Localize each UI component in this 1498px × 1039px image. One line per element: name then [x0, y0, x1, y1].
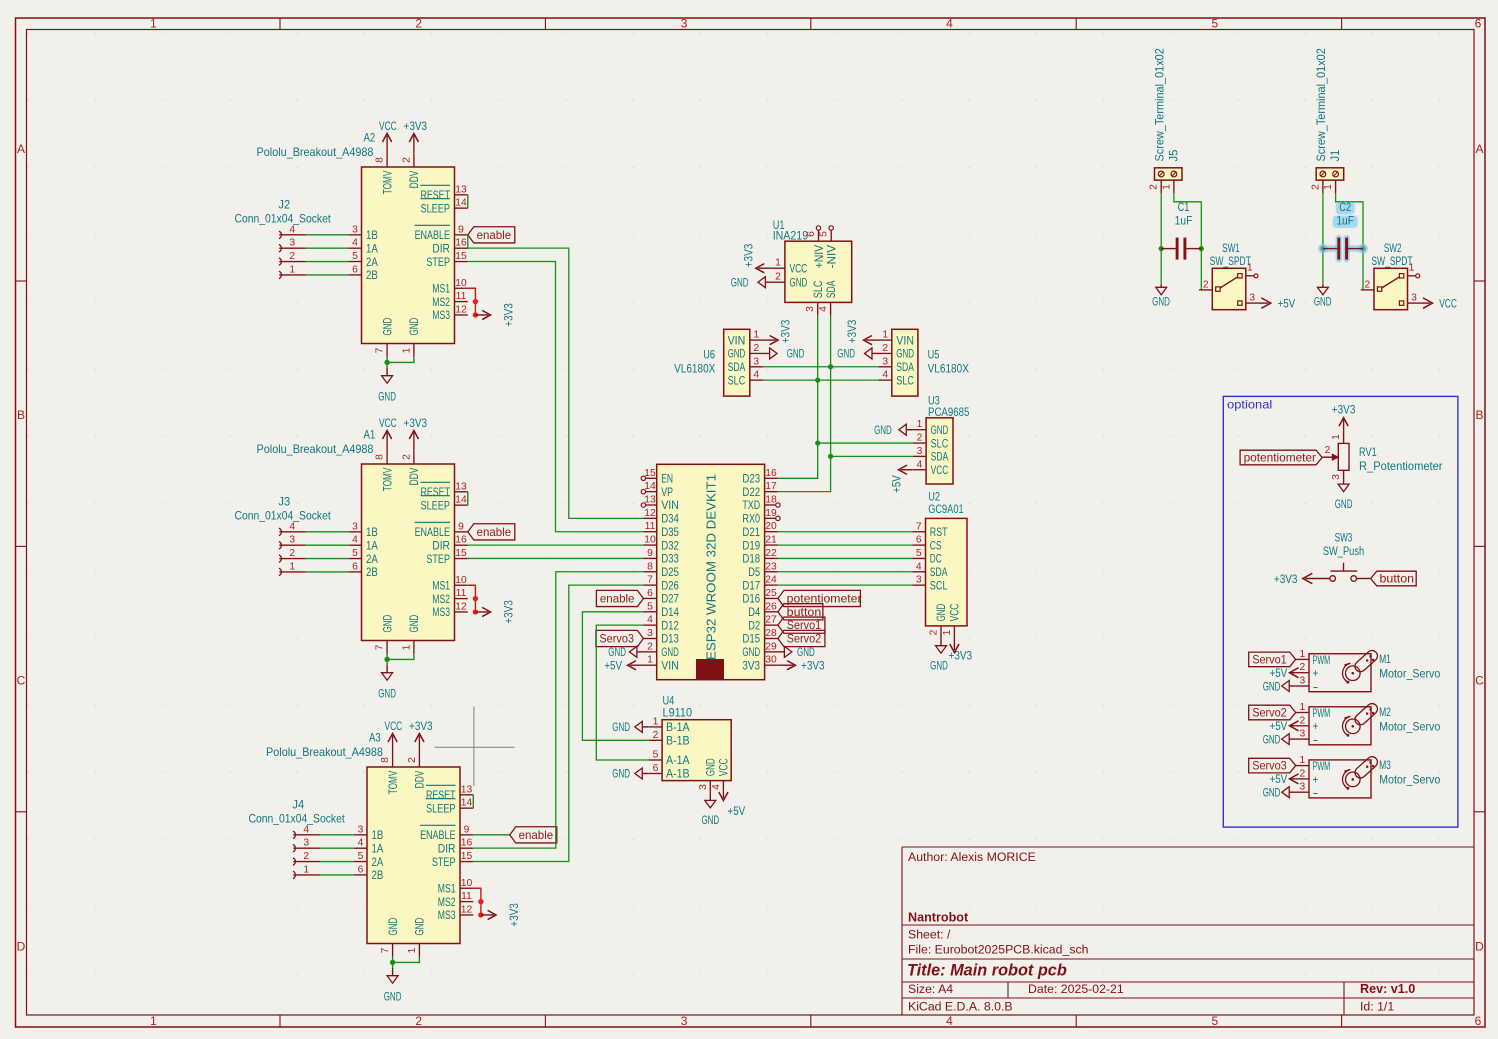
pin 15 EN [646, 477, 657, 479]
svg-text:10: 10 [455, 278, 467, 289]
power +5V [1290, 778, 1296, 780]
svg-text:27: 27 [765, 615, 777, 626]
display driver U2 GC9A01 [912, 490, 972, 673]
pin 8 D25 [643, 571, 656, 573]
svg-text:SDA: SDA [728, 360, 746, 374]
svg-text:DIR: DIR [432, 538, 450, 552]
pin 9 ENABLE [455, 531, 468, 533]
svg-text:-: - [1313, 786, 1319, 800]
junction cap left [1159, 246, 1164, 251]
power +5V at pin 1 [630, 664, 643, 666]
svg-text:GND: GND [931, 423, 949, 437]
cursor crosshair [435, 707, 515, 787]
svg-text:D33: D33 [661, 552, 679, 566]
svg-text:4: 4 [358, 838, 364, 849]
net label Servo1 (D2) [778, 617, 825, 633]
ground symbol [1343, 481, 1345, 484]
svg-text:Pololu_Breakout_A4988: Pololu_Breakout_A4988 [266, 746, 383, 759]
IC U3 PCA9685 [874, 394, 969, 493]
svg-text:6: 6 [358, 864, 364, 875]
connector J2 Conn_01x04_Socket [234, 198, 348, 279]
svg-text:A1: A1 [364, 428, 376, 442]
ground symbol at U1 [765, 281, 771, 283]
pin 14 SLEEP [460, 807, 473, 809]
screw 2 [1171, 171, 1177, 177]
svg-text:3: 3 [681, 1014, 688, 1028]
svg-text:SDA: SDA [931, 450, 949, 464]
svg-text:6: 6 [647, 588, 653, 599]
svg-text:+3V3: +3V3 [1274, 572, 1298, 586]
net label Servo1 [1249, 652, 1296, 667]
pin 4 of J2 [279, 231, 281, 238]
svg-text:6: 6 [653, 763, 659, 774]
pin 4 1A [348, 247, 361, 249]
net label button (D4) [778, 604, 823, 620]
wire J2 pin 1 to A2 [306, 274, 349, 276]
svg-text:enable: enable [600, 591, 635, 605]
svg-text:12: 12 [644, 508, 656, 519]
svg-text:GND: GND [1263, 679, 1281, 693]
junction MS3 [473, 609, 478, 614]
pin 10 MS1 [455, 287, 468, 289]
power +5V below U4 [722, 794, 724, 798]
pin 3 1B [354, 834, 367, 836]
svg-text:3: 3 [1300, 729, 1306, 740]
pin 6 VIN+ [818, 230, 820, 241]
pin 3 SDA [750, 366, 763, 368]
svg-text:VCC: VCC [931, 463, 949, 477]
wire J4 pin 2 to A3 [320, 861, 354, 863]
IC U6 VL6180X [674, 320, 804, 397]
svg-text:13: 13 [455, 184, 467, 195]
wire SLC bus (U1 pin3 to D23) [778, 316, 818, 479]
svg-text:22: 22 [765, 548, 777, 559]
svg-text:D14: D14 [661, 605, 679, 619]
svg-text:1: 1 [882, 330, 888, 341]
ground symbol [872, 352, 879, 354]
pin 11 MS2 [455, 301, 468, 303]
pin 3 of J3 [279, 542, 281, 549]
svg-text:2: 2 [303, 851, 309, 862]
svg-text:SDA: SDA [824, 280, 838, 298]
wire D14 to U4 B-1B [582, 612, 648, 741]
svg-text:MS3: MS3 [432, 605, 450, 619]
power +3V3 at pin 30 [778, 664, 793, 666]
svg-text:1: 1 [1247, 263, 1253, 274]
svg-text:1: 1 [775, 258, 781, 269]
svg-text:GND: GND [704, 758, 718, 776]
svg-text:7: 7 [375, 644, 386, 650]
pin 16 DIR [455, 247, 468, 249]
svg-text:potentiometer: potentiometer [1244, 452, 1317, 465]
svg-text:10: 10 [644, 535, 656, 546]
pin 7 GND [386, 641, 388, 654]
wire GND tie [387, 357, 414, 363]
svg-text:D26: D26 [661, 578, 679, 592]
pin 19 RX0 [765, 517, 776, 519]
svg-text:1: 1 [289, 561, 295, 572]
pin 1 of J4 [293, 871, 295, 878]
junction cap right [1199, 246, 1204, 251]
pin 4 1A [354, 847, 367, 849]
svg-text:3: 3 [1300, 676, 1306, 687]
svg-text:2: 2 [653, 730, 659, 741]
svg-text:17: 17 [765, 481, 777, 492]
svg-text:GND: GND [797, 645, 815, 659]
svg-text:1: 1 [303, 864, 309, 875]
pin 2 GND [643, 651, 656, 653]
svg-text:GND: GND [742, 645, 760, 659]
svg-text:4: 4 [946, 17, 953, 31]
ground symbol below J1 [1314, 284, 1332, 308]
net label Servo2 (D15) [778, 630, 825, 646]
svg-text:1: 1 [753, 330, 759, 341]
svg-text:Author: Alexis MORICE: Author: Alexis MORICE [908, 850, 1036, 864]
svg-text:TOMV: TOMV [380, 170, 394, 194]
svg-text:4: 4 [289, 224, 295, 235]
pin 4 D12 [643, 624, 656, 626]
svg-text:7: 7 [647, 575, 653, 586]
junction SDA row [828, 364, 833, 369]
pin 22 D18 [765, 557, 778, 559]
svg-text:2: 2 [1310, 184, 1321, 190]
svg-text:3: 3 [1331, 474, 1342, 480]
wire J2 pin 3 to A2 [306, 247, 349, 249]
wire RESET-SLEEP tie [467, 492, 469, 505]
svg-text:4: 4 [352, 535, 358, 546]
pin 2 [1199, 289, 1212, 291]
cap leads [1323, 248, 1338, 250]
svg-text:-: - [1313, 733, 1319, 747]
ground symbol [1289, 791, 1296, 793]
wire J1 pin2 down [1322, 193, 1324, 284]
pin 1 of J3 [279, 568, 281, 575]
pin 1 [1246, 275, 1254, 277]
net label Servo3 (D13) [596, 630, 644, 646]
pin 3 D13 [643, 638, 656, 640]
svg-text:+5V: +5V [728, 804, 746, 818]
svg-text:Sheet: /: Sheet: / [908, 928, 951, 942]
svg-text:4: 4 [711, 784, 722, 790]
pin 12 MS3 [460, 914, 473, 916]
svg-text:M2: M2 [1379, 705, 1391, 719]
svg-text:J3: J3 [278, 495, 290, 509]
svg-text:DIR: DIR [438, 841, 456, 855]
svg-text:1uF: 1uF [1336, 214, 1354, 228]
ground symbol [392, 968, 394, 976]
wire A2 STEP to D35 [468, 262, 644, 532]
svg-text:A3: A3 [369, 731, 381, 745]
net label Servo3 [1249, 758, 1296, 773]
junction SLC-U3 [815, 440, 820, 445]
pin 6 CS [912, 544, 925, 546]
svg-text:24: 24 [765, 575, 777, 586]
pin 4 SDA [912, 571, 925, 573]
svg-text:Screw_Terminal_01x02: Screw_Terminal_01x02 [1153, 48, 1167, 161]
svg-text:D: D [17, 939, 26, 953]
svg-text:RX0: RX0 [742, 512, 760, 526]
graphic box optional [1223, 396, 1458, 827]
wire SDA to U3 [831, 455, 913, 457]
pin 1 PWM [1296, 712, 1309, 714]
pin 1 VIN [750, 339, 763, 341]
svg-text:2A: 2A [372, 855, 384, 869]
svg-text:PWM: PWM [1313, 706, 1331, 720]
pin 2 + [1296, 725, 1309, 727]
svg-text:8: 8 [375, 454, 386, 460]
pin 7 GND [392, 944, 394, 957]
svg-text:SW2: SW2 [1384, 241, 1402, 255]
net label button [1371, 571, 1417, 586]
wire J3 pin 3 to A1 [306, 544, 349, 546]
svg-text:C: C [1475, 674, 1484, 688]
svg-text:STEP: STEP [432, 855, 456, 869]
pin 12 MS3 [455, 314, 468, 316]
pin 13 RESET [455, 194, 468, 196]
wire MS1-MS2-MS3 tie [468, 585, 476, 612]
svg-text:1: 1 [1300, 649, 1306, 660]
wire A3 DIR to D25 [473, 572, 643, 848]
svg-text:20: 20 [765, 521, 777, 532]
pin 6 D27 [643, 597, 656, 599]
junction GND [390, 960, 395, 965]
pin 6 2B [354, 874, 367, 876]
svg-text:1A: 1A [366, 538, 378, 552]
svg-text:GND: GND [1263, 732, 1281, 746]
svg-text:EN: EN [661, 472, 673, 486]
svg-text:VCC: VCC [790, 261, 808, 275]
svg-text:Servo3: Servo3 [1252, 759, 1287, 773]
body [1338, 443, 1349, 470]
svg-text:3: 3 [917, 446, 923, 457]
contact circles [1330, 576, 1336, 582]
pin 4 of J3 [279, 528, 281, 535]
connector J3 Conn_01x04_Socket [234, 495, 348, 576]
pin 14 VP [646, 491, 657, 493]
svg-text:3: 3 [882, 356, 888, 367]
svg-text:9: 9 [647, 548, 653, 559]
pin 7 RST [912, 531, 925, 533]
wire D18 to U2 DC [778, 557, 912, 559]
svg-text:SLC: SLC [896, 373, 914, 387]
pin 26 D4 [765, 611, 778, 613]
svg-text:Servo2: Servo2 [787, 632, 822, 646]
svg-text:KiCad E.D.A. 8.0.B: KiCad E.D.A. 8.0.B [908, 1000, 1013, 1014]
pin 2 GND [940, 626, 942, 639]
svg-text:4: 4 [753, 370, 759, 381]
pin 11 MS2 [455, 598, 468, 600]
svg-text:D13: D13 [661, 632, 679, 646]
svg-text:-NIV: -NIV [825, 244, 839, 268]
svg-text:13: 13 [461, 784, 473, 795]
svg-text:A-1B: A-1B [666, 767, 690, 781]
svg-text:SLEEP: SLEEP [426, 801, 456, 815]
ground symbol [1289, 738, 1296, 740]
wire A2 DIR to D34 [468, 235, 644, 519]
pin 3 SDA [913, 455, 926, 457]
svg-text:INA219: INA219 [773, 229, 809, 243]
svg-text:3: 3 [753, 356, 759, 367]
power VCC [392, 736, 394, 754]
pin 30 3V3 [765, 664, 778, 666]
svg-text:2: 2 [775, 272, 781, 283]
svg-text:4: 4 [917, 459, 923, 470]
svg-text:Date: 2025-02-21: Date: 2025-02-21 [1028, 982, 1124, 996]
svg-text:Pololu_Breakout_A4988: Pololu_Breakout_A4988 [257, 146, 374, 159]
pin 7 GND [386, 344, 388, 357]
svg-text:Nantrobot: Nantrobot [908, 911, 969, 925]
svg-text:25: 25 [765, 588, 777, 599]
pin 9 ENABLE [455, 234, 468, 236]
svg-text:Screw_Terminal_01x02: Screw_Terminal_01x02 [1314, 48, 1328, 161]
svg-text:A: A [17, 142, 25, 156]
svg-text:D27: D27 [661, 592, 679, 606]
svg-text:DC: DC [930, 552, 942, 566]
wire J2 pin 4 to A2 [306, 234, 349, 236]
svg-text:+3V3: +3V3 [403, 119, 427, 133]
pin 1 VIN [643, 664, 656, 666]
svg-text:2: 2 [1300, 715, 1306, 726]
pin 12 MS3 [455, 611, 468, 613]
power +3V3 at VIN [866, 339, 879, 341]
pin 3 SCL [912, 584, 925, 586]
power +3V3 at MS pins [475, 611, 488, 613]
connector J4 Conn_01x04_Socket [248, 798, 353, 879]
svg-text:3: 3 [805, 306, 816, 312]
svg-text:+5V: +5V [604, 658, 622, 672]
svg-text:C2: C2 [1339, 200, 1351, 214]
svg-text:5: 5 [1212, 1014, 1219, 1028]
power +3V3 at MS pins [475, 314, 488, 316]
pin 15 STEP [455, 261, 468, 263]
stepper driver A2 Pololu_Breakout_A4988 [257, 119, 516, 404]
svg-text:3: 3 [303, 838, 309, 849]
pin 8 VMOT [386, 451, 388, 464]
svg-text:2: 2 [1203, 279, 1209, 290]
wire MS1-MS2-MS3 tie [468, 288, 476, 315]
pin 21 D19 [765, 544, 778, 546]
svg-text:11: 11 [461, 891, 472, 902]
svg-text:GND: GND [384, 990, 402, 1004]
svg-text:VCC: VCC [948, 604, 962, 622]
svg-text:16: 16 [455, 238, 467, 249]
svg-text:2: 2 [289, 548, 295, 559]
svg-text:GND: GND [1314, 295, 1332, 309]
power +5V at pin 3 [1259, 302, 1269, 304]
svg-text:RESET: RESET [420, 188, 450, 202]
svg-text:D22: D22 [742, 485, 760, 499]
svg-text:GND: GND [378, 390, 396, 404]
svg-text:SW_SPDT: SW_SPDT [1371, 254, 1413, 268]
svg-text:SW3: SW3 [1335, 531, 1353, 545]
svg-text:D4: D4 [748, 605, 760, 619]
pin 4 VCC [913, 469, 926, 471]
svg-text:GND: GND [701, 813, 719, 827]
svg-text:MS2: MS2 [432, 295, 450, 309]
svg-text:PCA9685: PCA9685 [928, 405, 969, 419]
pin 14 SLEEP [455, 207, 468, 209]
svg-text:D: D [1475, 939, 1484, 953]
wire A1 STEP to D33 [468, 557, 644, 559]
svg-text:15: 15 [461, 851, 473, 862]
svg-text:1: 1 [150, 17, 157, 31]
svg-text:TOMV: TOMV [386, 770, 400, 794]
svg-text:STEP: STEP [426, 552, 450, 566]
motor driver U4 L9110 [612, 694, 746, 828]
pin 2 VDD [418, 754, 420, 767]
svg-text:SLC: SLC [728, 373, 746, 387]
pin 2 of J2 [279, 258, 281, 265]
pin 9 D33 [643, 557, 656, 559]
svg-text:6: 6 [352, 561, 358, 572]
pin 2 [1357, 578, 1371, 580]
pin 4 of J4 [293, 831, 295, 838]
svg-text:+5V: +5V [1269, 772, 1287, 786]
pin 20 D21 [765, 531, 778, 533]
svg-text:11: 11 [645, 521, 656, 532]
screw 1 [1158, 171, 1164, 177]
svg-text:2: 2 [882, 343, 888, 354]
pin 8 VMOT [386, 154, 388, 167]
svg-text:Title: Main robot pcb: Title: Main robot pcb [907, 962, 1067, 980]
svg-text:14: 14 [455, 495, 467, 506]
net label enable (D27) [596, 590, 643, 606]
button bar [1330, 570, 1357, 572]
svg-text:2: 2 [1149, 184, 1160, 190]
pin 16 DIR [455, 544, 468, 546]
pin 3 - [1296, 791, 1309, 793]
usb connector mark [696, 659, 724, 680]
net label enable [468, 227, 515, 243]
pin 8 VMOT [392, 754, 394, 767]
svg-text:2: 2 [929, 629, 940, 635]
junction MS2 [478, 899, 483, 904]
svg-text:Rev: v1.0: Rev: v1.0 [1360, 982, 1415, 996]
cap plates [1337, 238, 1340, 260]
cap plates [1176, 238, 1179, 260]
svg-text:4: 4 [352, 238, 358, 249]
svg-text:VCC: VCC [717, 758, 731, 776]
net label enable [468, 524, 515, 540]
svg-text:J1: J1 [1328, 150, 1342, 162]
svg-text:-: - [1313, 679, 1319, 693]
pin 25 D16 [765, 597, 778, 599]
net label potentiometer [1240, 450, 1322, 465]
junction GND [384, 360, 389, 365]
svg-text:3: 3 [916, 575, 922, 586]
pin 16 D23 [765, 477, 778, 479]
svg-text:1uF: 1uF [1175, 214, 1193, 228]
pin 2 GND [750, 352, 763, 354]
pin 5 A-1A [649, 759, 662, 761]
ground symbol at U3 [906, 429, 913, 431]
svg-text:GND: GND [874, 423, 892, 437]
svg-text:Motor_Servo: Motor_Servo [1379, 721, 1440, 734]
svg-text:TOMV: TOMV [380, 467, 394, 491]
svg-text:TXD: TXD [742, 498, 760, 512]
svg-text:12: 12 [455, 601, 467, 612]
svg-text:M3: M3 [1379, 758, 1391, 772]
junction SDA-U3 [828, 454, 833, 459]
power VCC at pin 3 [1421, 302, 1431, 304]
svg-text:7: 7 [375, 347, 386, 353]
potentiometer RV1 R_Potentiometer [1240, 403, 1443, 512]
svg-text:MS3: MS3 [432, 308, 450, 322]
svg-text:GND: GND [612, 720, 630, 734]
svg-text:+3V3: +3V3 [501, 303, 515, 327]
svg-text:1: 1 [653, 716, 659, 727]
ground symbol at U2 [940, 639, 942, 646]
